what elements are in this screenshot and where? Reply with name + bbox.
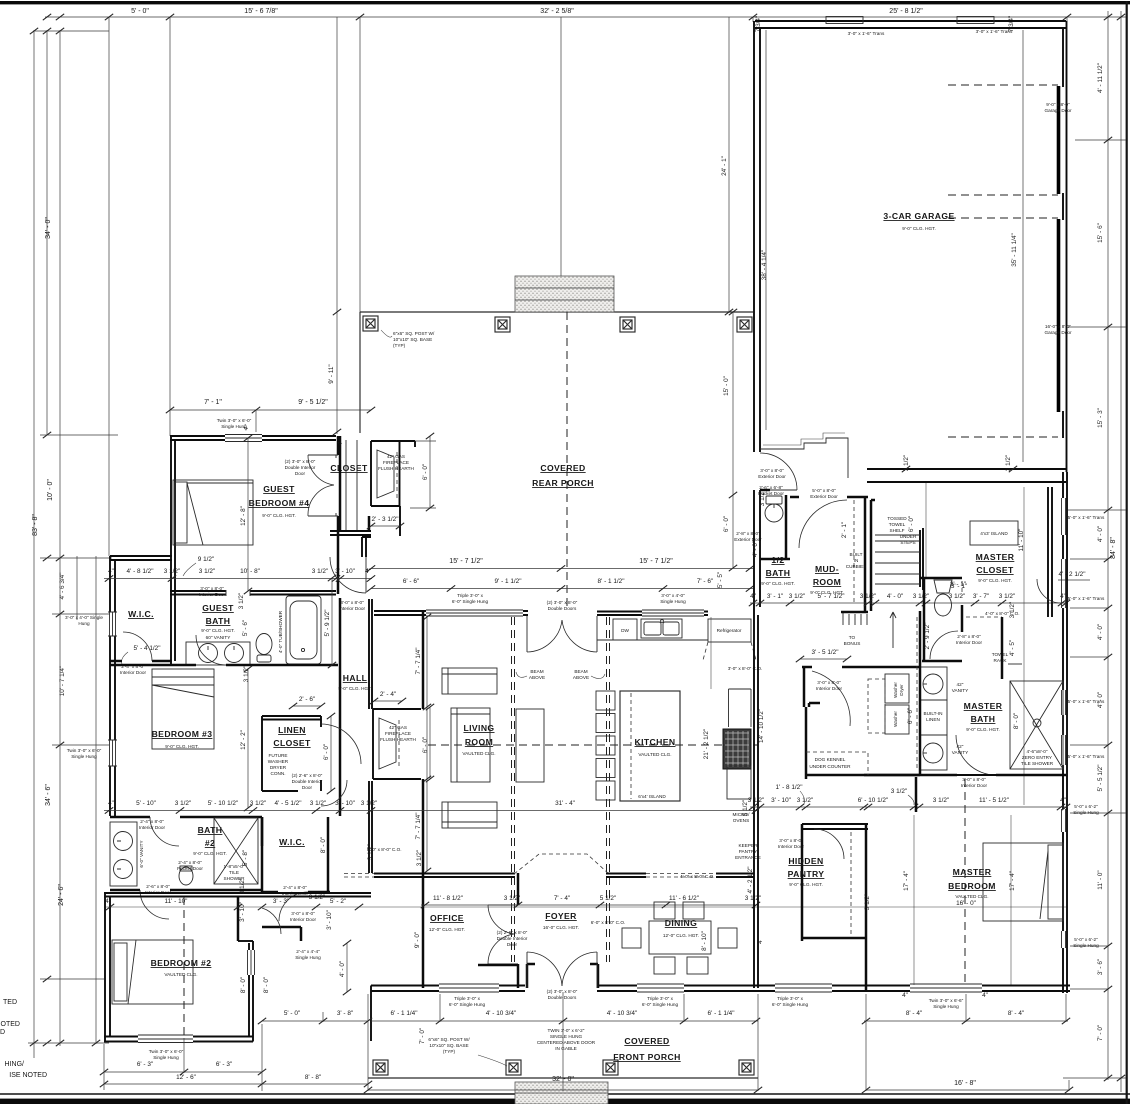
svg-text:Washer: Washer [893,711,898,727]
svg-text:Single Hung: Single Hung [295,955,321,960]
svg-text:8' - 0": 8' - 0" [263,977,270,993]
svg-text:5' - 0": 5' - 0" [131,8,149,15]
bedroom4 south wall [170,590,336,592]
front porch slab [368,1077,758,1079]
svg-text:9'-0" CLG. HGT.: 9'-0" CLG. HGT. [789,882,823,887]
svg-text:Triple 3'-0" x: Triple 3'-0" x [647,996,673,1001]
bath height dim [331,578,333,665]
svg-text:2'-4" x 8'-0": 2'-4" x 8'-0" [178,860,202,865]
svg-text:Dryer: Dryer [899,684,904,696]
svg-text:3 1/2": 3 1/2" [504,895,520,902]
bedroom4 north window [225,435,262,442]
svg-text:BUILT: BUILT [850,552,863,557]
toilet room door [930,631,958,659]
svg-text:TWIN 3'-0" x 6'-2": TWIN 3'-0" x 6'-2" [548,1028,585,1033]
svg-text:6' - 1 1/4": 6' - 1 1/4" [708,1010,735,1017]
bedroom4 height dim [247,438,249,591]
svg-text:Twin 3'-0" x 6'-0": Twin 3'-0" x 6'-0" [67,748,102,753]
svg-text:6'-0" VANITY: 6'-0" VANITY [139,840,144,868]
svg-text:4' - 11 1/2": 4' - 11 1/2" [1097,63,1104,93]
svg-text:5' - 0": 5' - 0" [284,1010,300,1017]
svg-text:BEDROOM: BEDROOM [948,881,996,891]
right outer chains [1107,11,1109,1080]
svg-text:4": 4" [750,593,756,600]
svg-text:BATH: BATH [198,825,223,835]
svg-text:TOWEL: TOWEL [992,652,1009,657]
svg-text:3-CAR GARAGE: 3-CAR GARAGE [883,211,954,221]
chain y603 [750,602,1068,604]
svg-text:9'-0" CLG. HGT.: 9'-0" CLG. HGT. [338,686,372,691]
svg-text:5' - 4 1/2": 5' - 4 1/2" [134,645,161,652]
svg-text:3 1/2": 3 1/2" [310,800,326,807]
front steps stippled [515,1082,608,1104]
svg-text:Garage Door: Garage Door [1044,330,1072,335]
svg-text:4": 4" [757,938,764,944]
svg-text:CLOSET: CLOSET [273,738,311,748]
svg-text:Double Interior: Double Interior [292,779,323,784]
svg-text:Pocket Door: Pocket Door [177,866,203,871]
svg-text:5'-0" x 1'-6" Trans: 5'-0" x 1'-6" Trans [1068,515,1105,520]
svg-text:3 1/2": 3 1/2" [250,800,266,807]
svg-text:2' - 4": 2' - 4" [380,691,396,698]
bath2 north wall [110,816,262,819]
svg-text:3 1/2": 3 1/2" [797,797,813,804]
svg-text:TED: TED [3,999,17,1006]
kitchen east wall [754,611,758,824]
svg-text:32' - 2 5/8": 32' - 2 5/8" [540,8,574,15]
svg-text:3 1/2": 3 1/2" [164,568,180,575]
svg-text:4'-6"x8'-0": 4'-6"x8'-0" [1026,749,1047,754]
svg-text:GUEST: GUEST [202,603,234,613]
border right [1126,1,1128,1104]
mud room 3-5 1/2 dim [800,658,847,660]
svg-text:6' - 0": 6' - 0" [908,516,915,532]
svg-text:Interior Door: Interior Door [956,640,982,645]
svg-text:6' - 6": 6' - 6" [403,578,419,585]
svg-text:Double Doors: Double Doors [548,995,577,1000]
svg-text:5' - 6": 5' - 6" [242,620,249,636]
svg-text:3 1/2": 3 1/2" [1005,455,1012,471]
rear window triple living [426,610,523,616]
svg-text:11' - 6 1/2": 11' - 6 1/2" [669,895,699,902]
svg-text:8' - 4": 8' - 4" [1008,1010,1024,1017]
svg-text:6' - 1 1/4": 6' - 1 1/4" [391,1010,418,1017]
svg-text:(2) 2'-6" x 8'-0": (2) 2'-6" x 8'-0" [292,773,323,778]
rear wall dim chain 1 [371,568,753,570]
top dimension chain line [45,16,1126,18]
svg-text:Single Hung: Single Hung [660,599,686,604]
stairs [870,500,873,611]
svg-text:7' - 0": 7' - 0" [419,1028,426,1044]
svg-text:BEAM: BEAM [530,669,543,674]
svg-text:3'-0" x 8'-0": 3'-0" x 8'-0" [291,911,315,916]
svg-text:4'-0" TUB/SHOWER: 4'-0" TUB/SHOWER [278,610,283,653]
svg-text:6' - 0": 6' - 0" [422,464,429,480]
closet door arc [1037,579,1061,603]
built in cubbies [864,497,867,611]
svg-text:3' - 5 1/2": 3' - 5 1/2" [812,649,839,656]
svg-text:10' - 8": 10' - 8" [240,568,260,575]
svg-text:MASTER: MASTER [964,701,1003,711]
porch post 3 [620,317,635,332]
hall door to porch [362,537,371,557]
svg-text:3 1/2": 3 1/2" [312,568,328,575]
svg-text:Single Hung: Single Hung [71,754,97,759]
bedroom2 bed [112,940,193,1004]
porch post 4 [737,317,752,332]
hall strip walls [339,598,342,816]
garage door 16x8 [1057,219,1061,412]
fireplace 1 dims [410,436,436,508]
svg-text:16'-0" CLG. HGT.: 16'-0" CLG. HGT. [543,925,579,930]
left chain lines lower [59,558,61,1046]
svg-text:11' - 8 1/2": 11' - 8 1/2" [433,895,463,902]
svg-text:3 1/2": 3 1/2" [416,850,423,866]
linen closet [262,716,321,791]
svg-text:Door: Door [507,942,518,947]
svg-text:9'-0" x 8'-0": 9'-0" x 8'-0" [1046,102,1070,107]
svg-text:9'-0" CLG. HGT.: 9'-0" CLG. HGT. [902,226,936,231]
bedroom4 east wall w/ double door opening [337,436,340,455]
top chain extension verticals [46,30,48,435]
svg-text:FOYER: FOYER [545,911,577,921]
svg-text:6' - 6": 6' - 6" [907,708,914,724]
svg-text:7' - 7 1/4": 7' - 7 1/4" [415,648,422,675]
bath2 shower [214,818,258,884]
svg-text:Triple 3'-0" x: Triple 3'-0" x [457,593,483,598]
svg-text:2'-4" x 4'-4": 2'-4" x 4'-4" [296,949,320,954]
svg-text:VAULTED CLG.: VAULTED CLG. [638,752,671,757]
svg-text:5'-0" x 6'-2": 5'-0" x 6'-2" [1074,804,1098,809]
svg-text:ZERO ENTRY: ZERO ENTRY [1022,755,1053,760]
svg-text:8' - 1 1/2": 8' - 1 1/2" [598,578,625,585]
mud room north wall and porch door [790,496,868,499]
svg-text:KEEPER: KEEPER [738,843,758,848]
bedroom2 east wall [237,897,240,941]
garage west wall [753,21,755,452]
svg-text:Interior Door: Interior Door [339,606,365,611]
svg-text:5'-0" x 1'-6" Trans: 5'-0" x 1'-6" Trans [1068,699,1105,704]
guest bath vanity [186,642,250,665]
wic1 door [110,660,172,663]
front doors [527,952,597,988]
svg-text:Double Interior: Double Interior [285,465,316,470]
master closet east wall (house) [1062,472,1064,993]
svg-text:4' - 5 1/2": 4' - 5 1/2" [275,800,302,807]
svg-text:14' - 10 1/2": 14' - 10 1/2" [758,709,765,743]
svg-text:5' - 8": 5' - 8" [242,850,249,866]
svg-text:UNDER: UNDER [900,534,917,539]
svg-text:(TYP): (TYP) [443,1049,456,1054]
svg-text:4' - 10 3/4": 4' - 10 3/4" [486,1010,517,1017]
long dashed centerline [428,744,758,746]
svg-text:21' - 2 1/2": 21' - 2 1/2" [703,729,710,760]
master bedroom [865,941,868,990]
hall east dim 7-7 1/4 [426,617,428,871]
svg-text:10"x10" SQ. BASE: 10"x10" SQ. BASE [393,337,432,342]
svg-text:3 1/2": 3 1/2" [789,593,805,600]
svg-text:2' - 3 1/2": 2' - 3 1/2" [372,516,399,523]
svg-text:8' - 4": 8' - 4" [906,1010,922,1017]
svg-text:3' - 8": 3' - 8" [337,1010,353,1017]
svg-text:W.I.C.: W.I.C. [128,609,154,619]
svg-text:4'-0" x 8'-0" C.O.: 4'-0" x 8'-0" C.O. [680,874,715,879]
post note [381,330,392,337]
svg-text:7' - 4": 7' - 4" [554,895,570,902]
dim chain y810 [104,810,372,812]
svg-text:7' - 0": 7' - 0" [1097,1025,1104,1041]
left horizontal extension stubs [34,30,109,32]
kitchen counter north [597,639,708,641]
svg-text:MASTER: MASTER [953,867,992,877]
svg-text:8' - 10": 8' - 10" [701,931,708,951]
svg-text:6'-0" x 8'-0" C.O.: 6'-0" x 8'-0" C.O. [591,920,626,925]
hall south closet walls [262,817,301,941]
svg-text:3 1/2": 3 1/2" [361,800,377,807]
bedroom4 dim line [170,409,371,411]
svg-text:15' - 3": 15' - 3" [1097,408,1104,428]
hall south wall [374,874,425,878]
foyer tray dashes [514,854,609,874]
living fireplace chase [373,709,421,779]
svg-text:Door: Door [295,471,306,476]
dim 4-0 small [346,943,348,992]
svg-text:HIDDEN: HIDDEN [788,856,823,866]
svg-text:DOG KENNEL: DOG KENNEL [815,757,846,762]
svg-text:2'-8" x 8'-0": 2'-8" x 8'-0" [957,634,981,639]
svg-text:4' - 0": 4' - 0" [339,961,346,977]
foyer north walls [606,874,646,878]
svg-text:4' - 8 1/2": 4' - 8 1/2" [127,568,154,575]
svg-text:BEDROOM #3: BEDROOM #3 [152,729,213,739]
office north wall [425,874,515,878]
svg-text:3 1/2": 3 1/2" [1009,602,1016,618]
svg-text:5'-0" x 8'-0": 5'-0" x 8'-0" [812,488,836,493]
kitchen sink [641,619,682,638]
svg-text:CLOSET: CLOSET [976,565,1014,575]
svg-text:3' - 10": 3' - 10" [239,902,246,922]
svg-text:11' - 0": 11' - 0" [1097,870,1104,889]
svg-text:3 1/2": 3 1/2" [949,593,965,600]
bath2 toilet [179,866,193,885]
east wall windows [1062,498,1066,948]
svg-text:16' - 0": 16' - 0" [956,900,976,907]
svg-text:12' - 2": 12' - 2" [240,730,247,750]
svg-text:Interior Door: Interior Door [120,670,146,675]
svg-text:7' - 7 1/4": 7' - 7 1/4" [415,813,422,840]
svg-text:3 1/2": 3 1/2" [933,797,949,804]
svg-text:3' - 1": 3' - 1" [767,593,783,600]
svg-text:4' - 0": 4' - 0" [1097,624,1104,640]
washer dryer [885,674,909,734]
garage transom window 1 [826,17,863,24]
master bed [983,843,1063,921]
svg-text:4' - 2 1/2": 4' - 2 1/2" [747,867,754,894]
svg-text:9'-0" CLG. HGT.: 9'-0" CLG. HGT. [193,851,227,856]
svg-text:Single Hung: Single Hung [1073,943,1099,948]
svg-text:6'-0" Single Hung: 6'-0" Single Hung [449,1002,486,1007]
svg-text:5'-0" x 6'-2": 5'-0" x 6'-2" [1074,937,1098,942]
guest bath south wall [110,664,338,667]
beams above dashed [512,617,515,962]
svg-text:TOWEL: TOWEL [889,522,906,527]
svg-text:2'-4" x 8'-0": 2'-4" x 8'-0" [140,819,164,824]
west wall window 1 [108,612,117,636]
master bedroom south wall [864,986,1070,992]
dining table and chairs [622,902,737,974]
chain y905 [421,904,758,906]
rear kitchen window [642,610,704,616]
west wall window 2 [108,740,117,766]
svg-text:3 1/2": 3 1/2" [238,593,245,609]
kitchen island [620,691,680,801]
svg-text:9' - 5 1/2": 9' - 5 1/2" [298,399,328,406]
svg-text:Hung: Hung [78,621,90,626]
toilet room walls [923,578,926,662]
interior dim 31-4 [372,810,758,812]
svg-text:12'-0" CLG. HGT.: 12'-0" CLG. HGT. [429,927,465,932]
svg-text:3'-0" x 8'-0": 3'-0" x 8'-0" [200,586,224,591]
svg-text:4": 4" [365,568,371,575]
svg-text:BEDROOM #2: BEDROOM #2 [151,958,212,968]
svg-text:4' - 0": 4' - 0" [752,541,759,557]
svg-text:5' - 5 1/2": 5' - 5 1/2" [1097,765,1104,792]
office east wall + double doors [517,873,520,988]
island stools [596,691,615,800]
built-in linen [920,700,947,735]
svg-text:4' - 0": 4' - 0" [1097,526,1104,542]
svg-text:6' - 3": 6' - 3" [137,1061,153,1068]
svg-text:Triple 3'-0" x: Triple 3'-0" x [777,996,803,1001]
west exterior wall upper [109,556,111,816]
svg-text:4' - 2 1/2": 4' - 2 1/2" [1059,571,1086,578]
svg-text:3'-0" x 8'-0": 3'-0" x 8'-0" [962,777,986,782]
svg-text:Interior Door: Interior Door [199,592,225,597]
svg-text:16'-0" x 8'-0": 16'-0" x 8'-0" [1045,324,1072,329]
bedroom2 closet window [248,950,255,975]
svg-text:Exterior Door: Exterior Door [810,494,838,499]
svg-text:RACK: RACK [993,658,1007,663]
extension stubs bottom [104,992,1069,1091]
svg-text:Interior Door: Interior Door [290,917,316,922]
svg-text:ROOM: ROOM [813,577,841,587]
svg-text:9'-0" CLG. HGT.: 9'-0" CLG. HGT. [201,628,235,633]
svg-text:4' - 10 3/4": 4' - 10 3/4" [607,1010,638,1017]
svg-text:2'-6" x 6'-8": 2'-6" x 6'-8" [759,485,783,490]
svg-text:TO: TO [849,635,856,640]
rear porch steps stippled [515,276,614,312]
svg-text:COVERED: COVERED [624,1036,669,1046]
laundry room walls [802,667,920,779]
svg-text:6'-0" Single Hung: 6'-0" Single Hung [772,1002,809,1007]
laundry hall walls [919,611,922,775]
svg-text:4": 4" [108,800,114,807]
svg-text:SHELF: SHELF [889,528,904,533]
living sofa bottom [442,802,497,828]
svg-text:BEAM: BEAM [574,669,587,674]
closet inner east wall [1048,487,1052,617]
svg-text:VAULTED CLG.: VAULTED CLG. [955,894,988,899]
office west wall = living [422,873,425,988]
svg-text:FIREPLACE: FIREPLACE [383,460,409,465]
outdoor fireplace chase 1 [371,441,415,536]
border top [0,1,1130,4]
svg-text:FLUSH HEARTH: FLUSH HEARTH [380,737,416,742]
bottom dim chains [104,1071,262,1073]
border bottom thin [0,1093,1130,1095]
svg-text:6' - 0": 6' - 0" [723,516,730,532]
svg-text:2' - 9 1/2": 2' - 9 1/2" [924,623,931,650]
bedroom2 north wall [104,893,371,897]
svg-text:31' - 4": 31' - 4" [555,800,575,807]
svg-text:4": 4" [105,898,111,905]
svg-text:60" VANITY: 60" VANITY [206,635,232,640]
porch ridge dashed [566,312,568,608]
svg-text:4": 4" [982,992,988,999]
svg-text:24' - 1": 24' - 1" [721,156,728,176]
svg-text:6'x4' ISLAND: 6'x4' ISLAND [638,794,666,799]
svg-text:9' - 11": 9' - 11" [328,364,335,383]
svg-text:3'-0" x 8'-0": 3'-0" x 8'-0" [817,680,841,685]
svg-text:4'x3' ISLAND: 4'x3' ISLAND [980,531,1008,536]
svg-text:(2) 3'-0" x 8'-0": (2) 3'-0" x 8'-0" [547,989,578,994]
svg-text:3'-0" x 8'-0": 3'-0" x 8'-0" [340,600,364,605]
svg-text:3 1/2": 3 1/2" [175,800,191,807]
svg-text:WASHER: WASHER [268,759,289,764]
svg-text:24' - 6": 24' - 6" [58,884,65,906]
garage south wall [867,468,1066,470]
svg-text:83' - 8": 83' - 8" [32,514,39,536]
svg-text:OVENS: OVENS [733,818,749,823]
bedroom3 bed [152,669,214,749]
svg-text:Single Hung: Single Hung [933,1004,959,1009]
svg-text:3' - 7": 3' - 7" [973,593,989,600]
svg-text:12'-0" CLG. HGT.: 12'-0" CLG. HGT. [663,933,699,938]
svg-text:HING/: HING/ [5,1061,25,1068]
wic2 [262,817,328,893]
svg-text:17' - 4": 17' - 4" [1009,871,1016,891]
svg-text:(2) 2'-6" x 8'-0": (2) 2'-6" x 8'-0" [497,930,528,935]
svg-text:3 1/2": 3 1/2" [999,593,1015,600]
svg-text:VANITY: VANITY [952,688,969,693]
svg-text:5' - 10": 5' - 10" [136,800,156,807]
svg-text:7' - 1": 7' - 1" [204,399,222,406]
half bath walls [760,490,790,559]
svg-text:15' - 7 1/2": 15' - 7 1/2" [639,558,673,565]
svg-text:3 1/2": 3 1/2" [913,593,929,600]
svg-text:6'-0" Single Hung: 6'-0" Single Hung [452,599,489,604]
svg-text:3' - 3": 3' - 3" [273,898,289,905]
master bath vanities [920,667,947,700]
dining east wall [754,824,758,988]
svg-text:OFFICE: OFFICE [430,913,464,923]
svg-text:1' - 8 1/2": 1' - 8 1/2" [776,784,803,791]
svg-text:Double Doors: Double Doors [548,606,577,611]
svg-text:VAULTED CLG.: VAULTED CLG. [462,751,495,756]
svg-text:OTED: OTED [1,1021,20,1028]
svg-text:34' - 0": 34' - 0" [45,217,52,239]
svg-text:3 1/2": 3 1/2" [239,878,246,894]
top chain ticks [43,14,51,20]
svg-text:HALL: HALL [343,673,368,683]
bedroom3 height dim [247,669,249,808]
svg-text:16' - 8": 16' - 8" [954,1080,976,1087]
mud entry steps [760,438,848,478]
svg-text:15' - 7 1/2": 15' - 7 1/2" [449,558,483,565]
svg-text:ENTRANCE: ENTRANCE [735,855,761,860]
svg-text:3'-0" x 8'-0": 3'-0" x 8'-0" [779,838,803,843]
svg-text:9'-0" CLG. HGT.: 9'-0" CLG. HGT. [165,744,199,749]
